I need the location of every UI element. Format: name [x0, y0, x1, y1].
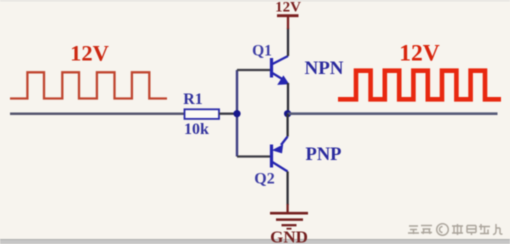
transistor Q1: [272, 56, 290, 85]
wire node to Q2 emitter: [286, 114, 288, 137]
wire Q2 collector down: [286, 172, 288, 206]
wire Q1 emitter down to node: [287, 83, 289, 114]
wire to ground: [286, 204, 288, 213]
wire Q1 collector up: [287, 28, 289, 56]
power 12V bar: [277, 14, 299, 17]
bottom gray bar: [0, 240, 510, 244]
power 12V stub: [287, 16, 289, 29]
transistor Q2: [272, 137, 288, 172]
svg-text:10k: 10k: [184, 121, 209, 138]
node A junction dot: [233, 110, 240, 117]
wire input to R1: [10, 112, 185, 115]
wire vertical base feed: [236, 70, 238, 157]
ground: [270, 213, 308, 229]
watermark toutiao: [408, 224, 503, 236]
wire R1 to junction: [219, 113, 237, 115]
svg-text:12V: 12V: [70, 41, 109, 66]
svg-text:12V: 12V: [399, 41, 440, 67]
wire base Q2: [237, 155, 271, 157]
svg-text:R1: R1: [183, 91, 203, 108]
svg-text:GND: GND: [270, 228, 308, 244]
svg-text:PNP: PNP: [306, 145, 342, 165]
output square wave: [338, 71, 501, 100]
resistor R1: [185, 109, 220, 119]
node B output junction dot: [284, 110, 291, 117]
input square wave: [10, 72, 167, 98]
svg-text:12V: 12V: [275, 0, 301, 16]
svg-text:Q2: Q2: [254, 171, 274, 188]
wire base Q1: [237, 69, 271, 71]
svg-text:NPN: NPN: [304, 58, 343, 79]
output wire: [288, 112, 498, 115]
svg-text:Q1: Q1: [252, 43, 272, 60]
